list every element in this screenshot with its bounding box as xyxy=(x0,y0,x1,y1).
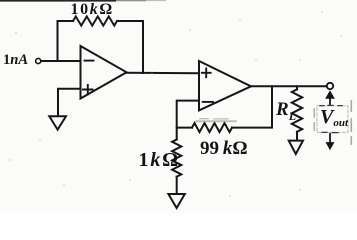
U2 minus marker xyxy=(203,101,213,103)
wire U1 noninverting input to ground xyxy=(58,89,81,116)
wire RL top stub xyxy=(296,86,298,89)
border scan artifact top xyxy=(0,0,166,2)
wire RL to ground xyxy=(296,132,298,141)
U1 plus marker xyxy=(83,85,93,94)
Vout down arrow xyxy=(326,134,333,149)
label RL xyxy=(276,99,296,124)
resistor R feedback 10k zigzag xyxy=(73,16,117,25)
U2 plus marker xyxy=(202,68,211,77)
scan speckles xyxy=(9,11,341,197)
wire U2 inverting input down to node xyxy=(177,101,199,140)
op-amp U1 triangle xyxy=(81,46,127,99)
Vout box xyxy=(317,106,348,133)
Vout up arrow xyxy=(326,91,334,104)
wire feedback left vertical xyxy=(57,21,59,61)
resistor 99k zigzag xyxy=(192,123,232,132)
label 10kOhm xyxy=(71,1,114,19)
wire feedback right vertical xyxy=(142,21,144,73)
label Vout xyxy=(320,106,348,129)
wire U2 output to terminal xyxy=(251,85,327,87)
scan marks right edge of Vout xyxy=(314,100,353,145)
wire feedback top right xyxy=(117,20,143,22)
resistor 1k vertical zigzag xyxy=(172,140,181,177)
ground G2 xyxy=(168,194,184,208)
wire U1 output to U2 input xyxy=(127,72,199,75)
label 1kOhm xyxy=(139,149,180,172)
node OUT terminal circle xyxy=(327,83,333,89)
label 1nA xyxy=(3,52,28,69)
ground G3 xyxy=(289,141,303,154)
label 99kOhm xyxy=(200,138,248,160)
node IN terminal circle xyxy=(36,58,41,63)
U1 minus marker xyxy=(85,60,94,62)
op-amp U2 triangle xyxy=(199,61,251,110)
wire input to op-amp inverting input xyxy=(41,60,80,62)
wire feedback2 node to zigzag xyxy=(177,127,192,129)
scan smudge above 99k xyxy=(195,118,237,122)
resistor RL vertical zigzag xyxy=(292,89,302,131)
wire 1k to ground xyxy=(176,177,178,194)
ground G1 xyxy=(49,116,66,129)
wire feedback top left xyxy=(58,20,74,22)
wire 99k to output vertical xyxy=(232,86,272,127)
